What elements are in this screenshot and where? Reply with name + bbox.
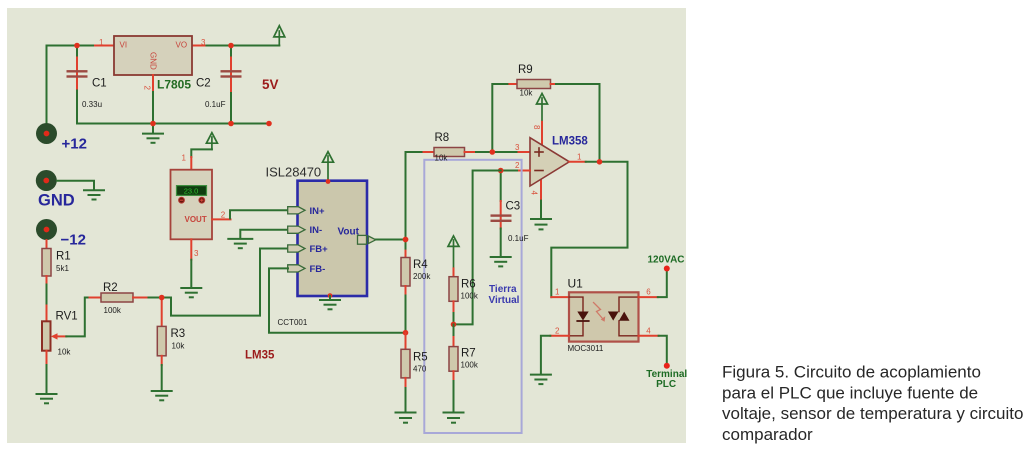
U1 internal LED branch: [569, 297, 583, 336]
svg-text:10k: 10k: [58, 348, 72, 357]
pin stub sensor pin2 VOUT: [212, 218, 231, 220]
pin stub R6 bottom: [453, 301, 455, 313]
op-amp U2:A LM358 triangle: [530, 138, 569, 186]
svg-text:R4: R4: [413, 259, 428, 271]
op-amp U ISL28470 body: [298, 181, 368, 296]
wire RV1 to ground: [46, 365, 48, 394]
wire C2 top stub: [230, 46, 232, 58]
junction dot Vout R8 R4: [403, 237, 409, 243]
ground at IN-: [228, 239, 252, 248]
wire R3 to ground: [161, 365, 163, 391]
wire Vout to junction: [376, 239, 406, 241]
svg-text:ISL28470: ISL28470: [266, 165, 322, 180]
junction dot pin2 C3: [498, 168, 504, 174]
svg-text:100k: 100k: [461, 292, 479, 301]
svg-text:3: 3: [515, 143, 520, 152]
resistor R5: [401, 349, 410, 378]
pin stub sensor pin3: [190, 239, 192, 259]
pin stub sensor pin1: [190, 157, 192, 170]
svg-text:+12: +12: [62, 136, 87, 153]
pin stub opamp pin8: [541, 122, 543, 146]
wire Vout junction up to R8: [406, 152, 424, 240]
resistor R1: [42, 249, 51, 277]
U1 LED triangle: [577, 312, 588, 322]
svg-text:3: 3: [201, 38, 206, 47]
ground below sensor: [181, 288, 201, 297]
pin stub R5 bottom: [405, 378, 407, 388]
svg-text:1: 1: [99, 38, 104, 47]
wire ISL bottom to ground: [329, 296, 331, 300]
ground below opamp: [531, 219, 551, 229]
ground below C3: [491, 257, 511, 266]
tierra virtual annotation box: [424, 160, 521, 433]
U1 triac triangles: [608, 312, 630, 321]
junction dot C1 top: [74, 43, 80, 49]
ground below U1 pin2: [531, 375, 551, 385]
U1 zigzag opto arrow: [594, 303, 606, 322]
svg-text:10k: 10k: [172, 342, 186, 351]
pin stub R8 left: [424, 151, 435, 153]
svg-text:LM35: LM35: [245, 350, 275, 362]
wire arrow to sensor pin1: [191, 149, 212, 157]
U1 internal triac branch: [619, 297, 639, 336]
wire IN- to ground: [240, 230, 288, 238]
potentiometer RV1 wiper arrow: [51, 333, 67, 339]
pin stub U1 pin2: [550, 335, 569, 337]
wire 7805 GND to rail: [152, 92, 154, 124]
wire C3 junction down: [500, 171, 502, 202]
wire sensor pin3 to ground: [190, 260, 192, 288]
pin stub R7 bottom: [453, 371, 455, 381]
wire pin2 junction to opamp: [501, 170, 519, 172]
pin flag FB-: [288, 265, 305, 272]
svg-text:−12: −12: [61, 232, 86, 249]
pin stub R3 bottom: [161, 356, 163, 365]
sensor knob plus: [199, 197, 205, 203]
junction dot C2 top: [228, 43, 234, 49]
svg-text:2: 2: [555, 326, 560, 335]
wire bottom rail: [77, 123, 269, 125]
pin stub R8 right: [465, 151, 477, 153]
wire GND terminal to ground: [57, 181, 94, 190]
junction dot R4 R5 FB-: [403, 330, 409, 336]
svg-text:VO: VO: [176, 41, 188, 50]
svg-text:10k: 10k: [435, 154, 449, 163]
pin stub R4 bottom: [405, 286, 407, 296]
svg-text:R9: R9: [518, 64, 533, 76]
pin stub R7 top: [453, 337, 455, 347]
svg-text:3: 3: [194, 249, 199, 258]
svg-text:0.33u: 0.33u: [82, 100, 102, 109]
wire junction to R7: [453, 324, 455, 337]
svg-text:5k1: 5k1: [56, 264, 69, 273]
wire R1 to RV1: [46, 285, 48, 306]
capacitor C2: [221, 58, 242, 94]
svg-text:4: 4: [646, 326, 651, 335]
wire R9 to output: [556, 84, 600, 162]
junction dot output R9: [597, 159, 603, 165]
pin stub R1 top: [46, 240, 48, 249]
junction dot R2 R3: [159, 295, 165, 301]
ground below R7: [444, 413, 464, 423]
pin stub opamp pin2: [519, 170, 530, 172]
pin flag FB+: [288, 245, 305, 252]
terminal dot 120VAC: [664, 266, 670, 272]
wire C1 top stub: [76, 46, 78, 58]
svg-text:100k: 100k: [461, 361, 479, 370]
junction dot rail C2: [228, 121, 234, 127]
wire FB- to R4R5 junction: [269, 268, 406, 332]
svg-text:IN-: IN-: [310, 225, 323, 236]
svg-text:MOC3011: MOC3011: [568, 344, 604, 353]
wire junction to opamp pin3: [492, 151, 518, 153]
svg-text:10k: 10k: [520, 89, 534, 98]
svg-text:U1: U1: [568, 277, 584, 291]
svg-text:1: 1: [182, 154, 187, 163]
ground below RV1: [37, 394, 57, 403]
svg-text:4: 4: [530, 191, 539, 196]
pin stub R9 left: [509, 83, 517, 85]
wire opamp pin4 to ground: [540, 201, 542, 219]
pin stub opamp pin3: [519, 151, 531, 153]
svg-text:200k: 200k: [413, 272, 431, 281]
terminal -12: [36, 219, 57, 240]
pin stub R1 bottom: [46, 276, 48, 285]
pin flag IN+: [288, 207, 305, 214]
pin stub U1 pin1: [551, 296, 569, 298]
wire VO to 5V arrow: [207, 45, 280, 47]
wire R8 to pin3 junction: [476, 151, 492, 153]
resistor R9: [517, 80, 551, 89]
wire junction to FB+: [162, 249, 288, 316]
pin stub U1 pin4: [639, 335, 659, 337]
svg-text:2: 2: [515, 161, 520, 170]
sensor knob minus: [179, 197, 185, 203]
power arrow above R6: [448, 236, 459, 269]
resistor R4: [401, 258, 410, 287]
svg-text:VI: VI: [120, 41, 128, 50]
pin flag IN-: [288, 226, 305, 233]
svg-text:6: 6: [646, 288, 651, 297]
resistor R6: [449, 277, 458, 302]
svg-text:0.1uF: 0.1uF: [205, 100, 226, 109]
svg-text:Virtual: Virtual: [489, 295, 520, 306]
svg-text:470: 470: [413, 365, 427, 374]
svg-text:R7: R7: [461, 348, 476, 360]
svg-text:para el PLC que incluye fuente: para el PLC que incluye fuente de: [722, 383, 978, 402]
junction dot R6 R7: [451, 322, 457, 328]
svg-text:VOUT: VOUT: [185, 215, 207, 224]
svg-text:LM358: LM358: [552, 136, 588, 148]
sensor LCD display 23.0: [177, 186, 207, 196]
svg-text:2: 2: [221, 211, 226, 220]
regulator U L7805 body: [114, 36, 192, 75]
svg-text:8: 8: [532, 125, 541, 130]
sensor LM35 body: [171, 170, 213, 240]
svg-text:C3: C3: [506, 201, 521, 213]
wire Vout junction to R4: [405, 240, 407, 249]
svg-text:R1: R1: [56, 251, 71, 263]
wire sensor pin2 to IN+: [230, 210, 288, 218]
wire R5 to ground: [405, 388, 407, 412]
power arrow above sensor: [206, 133, 217, 150]
pin flag Vout: [358, 235, 376, 244]
opamp minus symbol: [535, 170, 543, 172]
capacitor C3: [491, 201, 512, 229]
svg-text:IN+: IN+: [310, 206, 326, 217]
pin stub R3 top: [161, 298, 163, 327]
pin stub R6 top: [453, 268, 455, 276]
svg-text:23.0: 23.0: [184, 186, 199, 195]
wire RV1 wiper to R2: [66, 298, 89, 337]
terminal dot Terminal PLC: [664, 363, 670, 369]
power arrow 5V: [274, 26, 285, 46]
svg-text:1: 1: [555, 288, 560, 297]
wire R7 to ground: [453, 381, 455, 412]
svg-text:5V: 5V: [262, 77, 279, 92]
junction dot rail end: [266, 121, 272, 127]
wire U1 pin6 to 120VAC: [658, 272, 667, 298]
power arrow above ISL28470: [323, 152, 334, 181]
resistor R8: [434, 148, 465, 157]
svg-text:2: 2: [143, 86, 152, 91]
ground below R3: [152, 391, 172, 400]
ground at GND terminal: [84, 190, 104, 199]
wire output to U1: [551, 162, 627, 297]
svg-text:R3: R3: [171, 328, 186, 340]
pin stub R4 top: [405, 249, 407, 258]
terminal +12: [36, 123, 57, 144]
svg-text:GND: GND: [149, 52, 158, 70]
svg-text:Tierra: Tierra: [489, 284, 517, 295]
wire R4 to junction: [405, 296, 407, 333]
svg-text:Vout: Vout: [338, 227, 360, 238]
terminal GND: [36, 170, 57, 191]
svg-text:R2: R2: [103, 282, 118, 294]
label Tierra Virtual: [489, 284, 520, 306]
svg-text:R8: R8: [435, 132, 450, 144]
pin stub RV1 bottom: [46, 351, 48, 365]
svg-text:C1: C1: [92, 78, 107, 90]
pin dot ISL top: [326, 179, 331, 184]
resistor R3: [157, 326, 166, 355]
ground below ISL: [320, 300, 340, 309]
pin dot ISL bottom: [328, 293, 333, 298]
pin stub R2 left: [90, 297, 102, 299]
svg-text:120VAC: 120VAC: [647, 255, 684, 266]
svg-text:GND: GND: [38, 191, 75, 209]
wire C3 to ground: [500, 229, 502, 257]
pin stub 7805 GND pin2: [152, 75, 154, 92]
pin stub R9 right: [551, 83, 557, 85]
wire +12 to VI corner: [47, 46, 96, 124]
pin stub VI pin1: [95, 45, 114, 47]
svg-text:R5: R5: [413, 352, 428, 364]
ground below R5: [396, 413, 416, 423]
svg-text:R6: R6: [461, 279, 476, 291]
opamp plus symbol: [535, 148, 543, 156]
junction dot rail GND: [150, 121, 156, 127]
pin stub opamp pin4: [540, 178, 542, 201]
potentiometer RV1 body: [42, 321, 51, 350]
capacitor C1: [67, 58, 88, 91]
svg-text:0.1uF: 0.1uF: [508, 234, 529, 243]
wire C2 bottom: [230, 93, 232, 124]
svg-text:RV1: RV1: [56, 311, 78, 323]
svg-text:FB+: FB+: [310, 244, 329, 255]
resistor R7: [449, 347, 458, 372]
pin stub VO pin3: [192, 45, 207, 47]
svg-text:comparador: comparador: [722, 425, 813, 444]
svg-text:CCT001: CCT001: [278, 318, 308, 327]
schematic sheet background: [7, 8, 686, 443]
power arrow opamp pin8: [537, 94, 548, 122]
wire R6 to junction: [453, 313, 455, 324]
label Terminal PLC: [646, 369, 687, 390]
wire U1 pin2 to ground: [541, 336, 550, 375]
pin stub opamp output pin1: [569, 161, 585, 163]
pin stub R5 top: [405, 333, 407, 350]
wire U1 pin4 to Terminal PLC: [659, 336, 667, 363]
svg-text:1: 1: [577, 153, 582, 162]
svg-text:voltaje, sensor de temperatura: voltaje, sensor de temperatura y circuit…: [722, 404, 1023, 423]
wire R6 junction to opamp pin2: [454, 171, 501, 325]
svg-text:C2: C2: [196, 78, 211, 90]
ground below rail: [152, 124, 154, 134]
svg-text:PLC: PLC: [656, 379, 676, 390]
pin stub U1 pin6: [639, 296, 658, 298]
wire R2 to junction: [149, 297, 162, 299]
wire C1 bottom: [76, 91, 78, 124]
pin stub RV1 top: [46, 306, 48, 322]
svg-text:FB-: FB-: [310, 264, 326, 275]
wire junction up to R9: [492, 84, 509, 152]
svg-text:L7805: L7805: [157, 78, 191, 92]
pin stub R2 right: [133, 297, 149, 299]
junction dot R8 pin3: [490, 149, 496, 155]
optocoupler U1 MOC3011 body: [569, 292, 639, 341]
svg-text:100k: 100k: [104, 306, 122, 315]
svg-text:Figura 5. Circuito de acoplami: Figura 5. Circuito de acoplamiento: [722, 363, 981, 382]
resistor R2: [101, 293, 133, 302]
